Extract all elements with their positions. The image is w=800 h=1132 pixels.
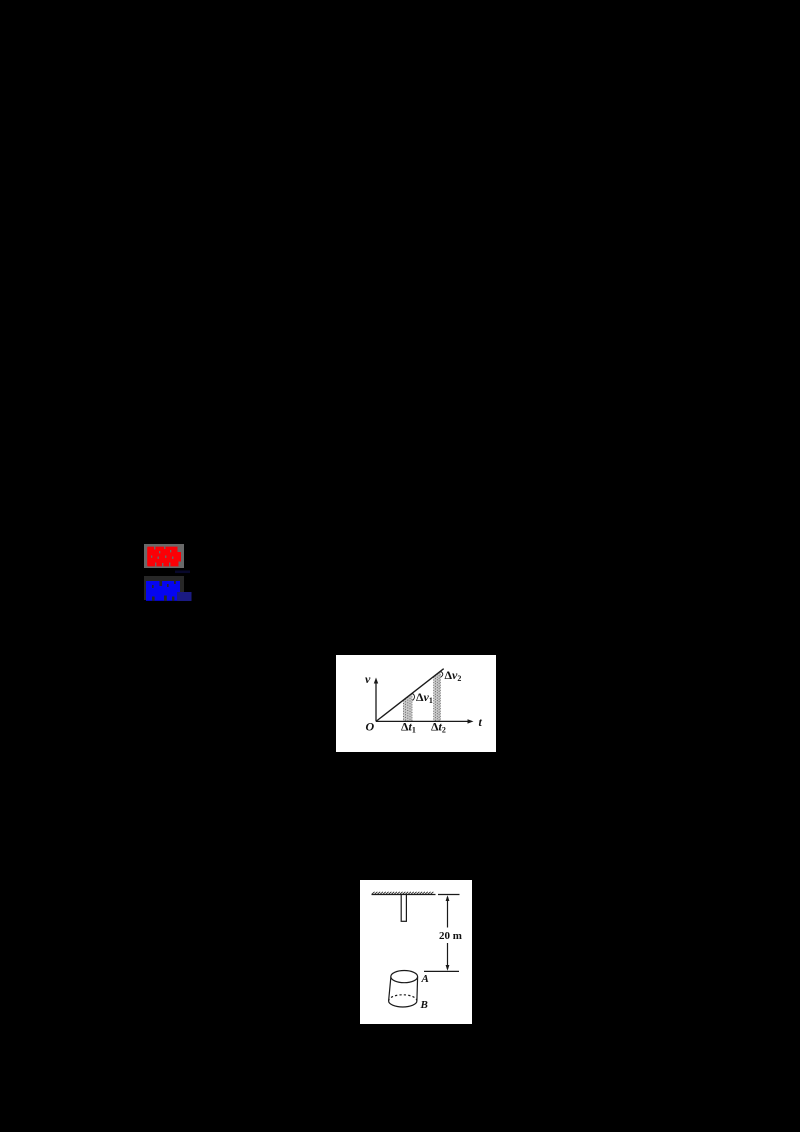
svg-text:A: A [421, 973, 429, 985]
svg-text:v: v [365, 672, 371, 686]
svg-text:B: B [420, 999, 428, 1011]
svg-text:20 m: 20 m [439, 930, 462, 942]
svg-text:O: O [366, 720, 375, 734]
